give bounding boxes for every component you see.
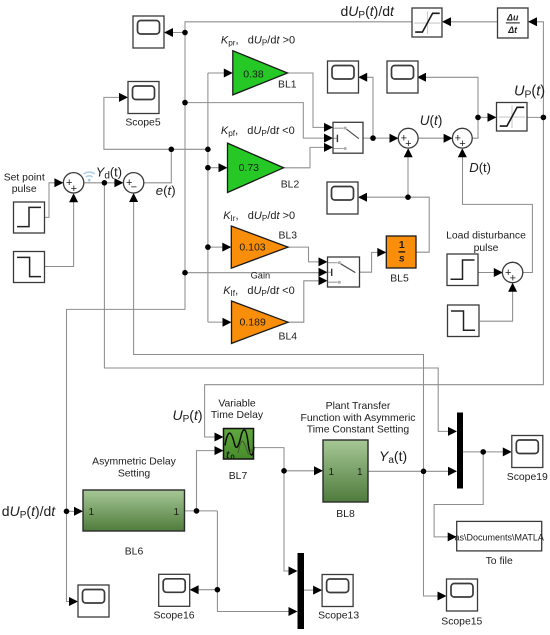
svg-text:Δu: Δu: [506, 12, 519, 22]
arrow into sum4 left: [444, 134, 453, 143]
scope Scope5: [128, 82, 159, 114]
svg-text:Load disturbance: Load disturbance: [446, 231, 526, 242]
sum junction 3 (U): [398, 128, 418, 150]
arrow into sum2 bottom: [129, 193, 138, 202]
svg-text:KIf, dUP/dt <0: KIf, dUP/dt <0: [223, 285, 295, 298]
sum junction 4 (U plus D): [452, 128, 472, 150]
wire mux1 output branch to To-file: [434, 452, 483, 537]
svg-text:0.103: 0.103: [239, 242, 265, 254]
wire UP rail up to du/dt block: [536, 22, 543, 118]
wire step4 to sum5 bottom: [480, 290, 513, 321]
svg-text:Asymmetric Delay: Asymmetric Delay: [92, 457, 177, 468]
arrow into scopeA (points left): [358, 73, 367, 82]
scope B after sum4 (mirrored): [387, 61, 418, 93]
switch 1: [333, 122, 363, 153]
arrow into sum1 left: [54, 178, 63, 187]
wire gain input rail: [207, 73, 209, 322]
svg-text:To file: To file: [486, 556, 513, 567]
svg-text:BL6: BL6: [125, 547, 144, 558]
saturation 1 (top, mirrored): [412, 8, 442, 37]
arrow into switch2 input2: [319, 268, 328, 277]
wire BL4 input: [208, 321, 225, 323]
wire BL6 input branch: [67, 510, 78, 512]
svg-text:UP(t): UP(t): [514, 84, 545, 101]
wire switch1 control from dUP/dt rail: [185, 103, 327, 139]
svg-text:as\Documents\MATLA: as\Documents\MATLA: [455, 533, 544, 543]
wire step2 to sum1 bottom: [45, 202, 74, 267]
svg-text:BL8: BL8: [336, 509, 355, 520]
svg-text:UP(t): UP(t): [173, 407, 203, 425]
svg-text:Scope19: Scope19: [507, 472, 548, 483]
arrow into Scope16 (points left): [190, 585, 199, 594]
arrow into mux1 input1: [448, 427, 457, 436]
wire UP rail down and left to BL7 input1: [205, 117, 544, 437]
wire mux1 output to Scope19: [463, 451, 506, 453]
svg-text:e(t): e(t): [156, 183, 176, 198]
svg-text:dUP(t)/dt: dUP(t)/dt: [2, 503, 57, 521]
wire sum3 to sum4: [418, 137, 446, 139]
arrow into sat2: [488, 113, 497, 122]
gain BL4 triangle 0.189: [232, 301, 289, 343]
wire switch2 output to BL5: [360, 252, 381, 272]
wire BL8 output Ya to mux1 input2: [368, 470, 451, 472]
svg-text:KIr, dUP/dt >0: KIr, dUP/dt >0: [223, 210, 295, 223]
arrow into BL1: [224, 69, 233, 78]
arrow into sum1 bottom: [69, 193, 78, 202]
arrow into bottom-left scope: [69, 597, 78, 606]
node on dUP/dt rail at top scope: [182, 30, 188, 36]
arrow into BL8: [314, 466, 323, 475]
svg-text:Yd(t): Yd(t): [96, 165, 122, 182]
variable time delay BL7: [224, 429, 255, 462]
svg-text:Kpr, dUP/dt >0: Kpr, dUP/dt >0: [221, 34, 295, 47]
arrow into scopeB (points left): [417, 73, 426, 82]
scope Scope13: [322, 575, 353, 607]
arrow into Scope13: [313, 586, 322, 595]
arrow into sat1 (points left): [442, 17, 451, 26]
wire feedback Ya to sum2 bottom: [134, 202, 424, 472]
wire sum1 to sum2 with Yd node: [84, 182, 116, 184]
svg-text:1: 1: [329, 467, 335, 478]
wire Yd rail down and right to mux1 input1: [104, 183, 449, 432]
svg-text:0.189: 0.189: [240, 317, 266, 329]
derivative block du/dt: [498, 8, 529, 38]
wire sum2 output e(t) up and to Scope5 and gain rail: [104, 97, 208, 182]
sum junction 2 (error e): [123, 173, 143, 194]
arrow into switch1 input3: [324, 143, 333, 152]
svg-text:+: +: [510, 273, 516, 285]
mux 1 (before Scope19): [457, 413, 463, 489]
node at BL6 input: [64, 509, 70, 515]
svg-text:Gain: Gain: [251, 271, 271, 281]
wire sum4 output up to scopeB and sat2: [425, 77, 490, 138]
wire BL3 output to switch2 input1: [288, 247, 321, 262]
node BL5 line at sum3 bottom: [405, 194, 411, 200]
scope Scope15: [447, 579, 478, 611]
node sum4 output at sat2: [475, 115, 481, 121]
arrow into scope3 (points left): [358, 193, 367, 202]
scope top-left (unnamed, mirrored): [133, 16, 164, 48]
svg-text:BL1: BL1: [278, 79, 297, 90]
svg-text:dUP(t)/dt: dUP(t)/dt: [341, 3, 396, 21]
step source step1 (set point up): [14, 202, 45, 233]
arrow into sum5 left: [494, 268, 503, 277]
svg-text:1: 1: [357, 467, 363, 478]
wire BL1 output to switch1 input1: [288, 73, 328, 127]
wire BL5 output to scope3 and sum3 bottom: [366, 150, 429, 253]
scope 3 after BL5 (mirrored): [327, 182, 358, 214]
wire BL3 input: [208, 246, 225, 248]
svg-text:D(t): D(t): [469, 160, 491, 175]
subsystem BL6 (Asymmetric Delay Setting): [83, 490, 185, 531]
arrow into sum2 left: [114, 178, 123, 187]
arrow into BL7 input2: [215, 446, 224, 455]
node Yd after sum1: [102, 180, 108, 186]
svg-text:Scope15: Scope15: [441, 617, 482, 628]
svg-text:Time Constant Setting: Time Constant Setting: [307, 425, 410, 436]
wire du/dt output to sat1: [451, 21, 498, 23]
svg-text:Time Delay: Time Delay: [211, 410, 264, 421]
wire BL7 output to BL8 input and mux2 input1: [254, 448, 317, 571]
gain BL3 triangle 0.103: [231, 226, 288, 268]
wire switch1 output to sum3 and scopeA: [363, 77, 392, 138]
arrow into mux2 input1: [289, 567, 298, 576]
svg-text:+: +: [459, 138, 465, 150]
node mux1 output: [480, 449, 486, 455]
subsystem BL8 (Plant Transfer Function): [323, 440, 368, 502]
wire top scope feed: [166, 32, 185, 34]
wire step3 to sum5: [478, 272, 496, 274]
node switch1 output: [370, 135, 376, 141]
svg-text:Scope13: Scope13: [318, 611, 359, 622]
scope bottom-left (unnamed): [78, 585, 109, 617]
svg-text:Function with Asymmeric: Function with Asymmeric: [301, 413, 416, 424]
scope A after switch1 (mirrored): [328, 61, 359, 93]
scope Scope19: [512, 436, 543, 468]
wire left rail down to BL6 and bottom scope: [67, 273, 186, 602]
svg-text:BL3: BL3: [279, 231, 298, 242]
svg-text:+: +: [71, 183, 77, 195]
svg-text:0.38: 0.38: [243, 69, 264, 81]
wire Ya branch down to Scope15: [424, 471, 441, 596]
svg-text:−: −: [131, 181, 137, 193]
wire dUP/dt top line from saturation to left rail down to Gain line: [185, 22, 412, 273]
wire BL6 output down to scope16 and mux2 input2: [198, 511, 292, 612]
arrow into To-file: [448, 532, 457, 541]
saturation 2 (UP limiter): [497, 103, 528, 132]
arrow into BL7 input1: [215, 433, 224, 442]
arrow into mux2 input2: [289, 607, 298, 616]
arrow into sum3 left: [390, 134, 399, 143]
sum junction 1 (set point): [63, 173, 83, 195]
scope Scope16 (mirrored): [159, 574, 190, 606]
arrow into mux1 input2: [448, 467, 457, 476]
wire BL4 output to switch2 input3: [288, 281, 321, 322]
arrow into BL5: [377, 248, 386, 257]
arrow into sum3 bottom: [404, 148, 413, 157]
node UP rail at sat2 output: [541, 115, 547, 121]
arrow into sum4 bottom: [458, 148, 467, 157]
svg-text:Scope16: Scope16: [153, 611, 194, 622]
wire sat2 output to UP rail: [527, 116, 543, 118]
node gain rail BL3: [205, 244, 211, 250]
svg-text:Plant Transfer: Plant Transfer: [326, 401, 391, 412]
svg-text:BL5: BL5: [390, 274, 409, 285]
arrow into du/dt block (points left): [528, 17, 537, 26]
svg-text:Set point: Set point: [4, 173, 45, 184]
arrow into BL2: [219, 163, 228, 172]
to-file block: [455, 521, 544, 551]
node Ya at mux1 input: [421, 469, 427, 475]
arrow into switch2 input1: [319, 257, 328, 266]
arrow into switch2 input3: [319, 276, 328, 285]
svg-text:U(t): U(t): [420, 113, 443, 128]
svg-text:BL4: BL4: [279, 331, 298, 342]
svg-text:Δt: Δt: [507, 25, 518, 35]
streaming badge (wifi) at Yd node: [84, 172, 95, 181]
arrow into switch1 input2: [324, 134, 333, 143]
node BL7 output at BL8 input: [281, 468, 287, 474]
node BL6 output: [194, 508, 200, 514]
wire step1 to sum1: [45, 183, 57, 218]
arrow into switch1 input1: [324, 123, 333, 132]
wire mux2 output to Scope13: [304, 589, 316, 591]
wire BL2 input: [208, 167, 221, 169]
svg-text:Kpf, dUP/dt <0: Kpf, dUP/dt <0: [221, 125, 295, 138]
sum junction 5 (load disturbance): [502, 262, 522, 284]
svg-text:BL7: BL7: [229, 471, 248, 482]
node e(t) on gain rail: [205, 147, 211, 153]
arrow into BL3: [222, 243, 231, 252]
wire sum5 to sum4 bottom D(t): [463, 150, 533, 273]
svg-text:BL2: BL2: [281, 180, 300, 191]
gain BL1 triangle 0.38: [233, 51, 288, 95]
wire Gain line to switch2 control: [185, 272, 321, 274]
svg-text:Variable: Variable: [218, 398, 256, 409]
step source step2 (set point down): [14, 252, 45, 283]
arrow into BL6: [74, 507, 83, 516]
arrow into Scope15: [438, 592, 447, 601]
svg-text:0: 0: [231, 452, 235, 461]
mux 2 (before Scope13): [298, 553, 305, 629]
integrator BL5: [386, 236, 416, 268]
svg-text:Scope5: Scope5: [125, 118, 160, 129]
svg-text:pulse: pulse: [12, 184, 37, 195]
node on dUP/dt rail at switch control: [182, 100, 188, 106]
svg-text:1: 1: [173, 507, 179, 518]
wire BL2 output to switch1 input3: [284, 147, 327, 167]
wire BL6 output to BL7 input2: [185, 451, 218, 511]
step source step4 (load disturbance down): [448, 305, 480, 337]
arrow into Scope5: [119, 93, 128, 102]
wire BL1 input: [208, 72, 226, 74]
node gain rail BL2: [205, 165, 211, 171]
svg-text:Ya(t): Ya(t): [379, 448, 407, 466]
step source step3 (load disturbance up): [447, 254, 478, 286]
svg-text:1: 1: [399, 239, 405, 251]
svg-text:s: s: [399, 253, 405, 265]
svg-text:Setting: Setting: [118, 468, 151, 479]
svg-text:+: +: [405, 138, 411, 150]
svg-text:pulse: pulse: [474, 243, 499, 254]
arrow into Scope19: [503, 447, 512, 456]
svg-text:1: 1: [89, 507, 95, 518]
node on dUP/dt rail at Gain line: [182, 270, 188, 276]
arrow into top scope (points left): [164, 28, 173, 37]
node BL6 line at scope16: [215, 587, 221, 593]
arrow into BL4: [223, 318, 232, 327]
gain BL2 triangle 0.73: [228, 143, 284, 192]
switch 2: [328, 257, 360, 287]
arrow into sum5 bottom: [508, 283, 517, 292]
svg-text:0.73: 0.73: [239, 162, 260, 174]
node e(t) corner: [169, 147, 175, 153]
